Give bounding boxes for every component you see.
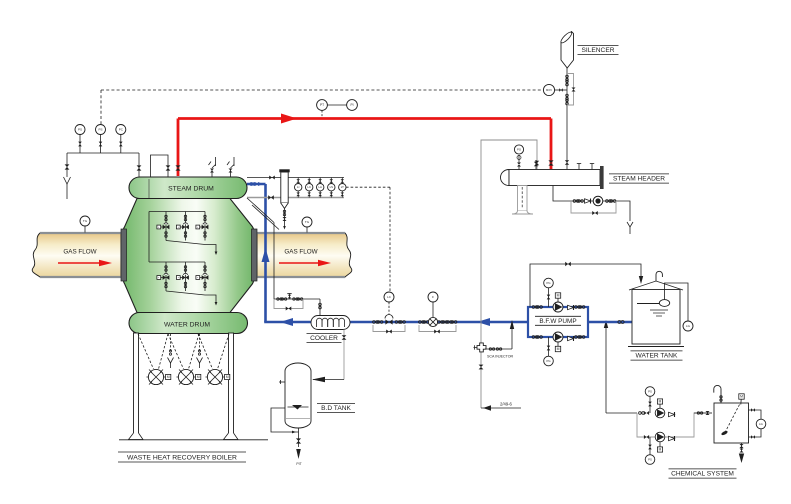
vent drop with valve and vent	[64, 153, 71, 199]
boiler internal blowdown row 2	[149, 262, 217, 306]
svg-text:COOLER: COOLER	[310, 335, 338, 342]
svg-text:PS: PS	[78, 128, 82, 132]
svg-text:M: M	[659, 400, 662, 404]
level gauge top line	[247, 176, 344, 180]
dosing pump B	[644, 432, 675, 452]
rotary valve RV3	[206, 369, 230, 384]
instrument PG pump B	[544, 337, 554, 366]
instrument MOV	[543, 84, 567, 95]
svg-text:M: M	[740, 395, 743, 399]
svg-text:LG: LG	[759, 422, 763, 426]
header nozzle valve	[534, 160, 538, 170]
silencer	[560, 31, 574, 68]
level instrument LC	[306, 178, 313, 198]
feedwater arrow at cooler	[280, 318, 293, 326]
feedwater riser arrow	[262, 248, 270, 262]
svg-text:WATER DRUM: WATER DRUM	[164, 321, 210, 328]
drum top root valve	[137, 165, 142, 170]
feedwater suction from tank (blue)	[588, 321, 632, 324]
steam flow arrow	[281, 114, 297, 124]
safety valve 2	[227, 157, 234, 177]
dosing pump A	[644, 399, 675, 418]
boiler internal blowdown row 1	[149, 212, 217, 263]
svg-text:PG: PG	[546, 281, 550, 285]
chemical tank drain	[739, 443, 744, 463]
label B.F.W PUMP	[535, 316, 581, 325]
rotary valve RV1	[147, 369, 171, 384]
pump A train	[532, 302, 585, 312]
water drum	[129, 313, 248, 334]
label STEAM HEADER	[609, 174, 669, 183]
feedwater main line (blue)	[264, 321, 528, 324]
feedwater arrow at pump discharge	[477, 318, 490, 326]
tank vent hook	[656, 271, 662, 281]
svg-text:▪: ▪	[178, 276, 179, 279]
steam drum	[129, 177, 247, 199]
sample cooler	[311, 316, 350, 330]
svg-text:2/49-6: 2/49-6	[500, 402, 513, 407]
svg-text:TG: TG	[83, 219, 88, 223]
svg-text:M: M	[557, 294, 560, 298]
right duct flange	[252, 229, 258, 281]
svg-text:▪: ▪	[197, 276, 198, 279]
label CHEMICAL SYSTEM	[669, 469, 737, 478]
svg-text:▪: ▪	[197, 226, 198, 229]
level instrument LI	[295, 178, 302, 198]
hopper drain vent	[168, 334, 174, 368]
drum vent U-loop	[151, 155, 171, 177]
left duct gas arrow	[58, 260, 112, 266]
injector feed line	[485, 320, 514, 350]
svg-text:▪: ▪	[158, 276, 159, 279]
svg-text:LT: LT	[341, 185, 344, 189]
header support	[512, 186, 533, 215]
right duct gas arrow	[279, 260, 331, 266]
tank side loop	[271, 408, 299, 433]
svg-text:LS: LS	[330, 185, 334, 189]
chemical dosing loop	[606, 411, 712, 437]
drum weld line	[148, 179, 150, 212]
level instrument LA	[317, 178, 324, 198]
trap bypass	[571, 201, 616, 215]
level instrument LS	[328, 178, 335, 198]
steam drum outlet valve	[175, 165, 180, 170]
svg-text:LG: LG	[686, 324, 691, 328]
trap line	[553, 186, 630, 222]
svg-text:▪: ▪	[158, 226, 159, 229]
tank level gauge LG	[665, 283, 694, 331]
svg-text:M: M	[197, 375, 200, 379]
svg-text:M: M	[659, 448, 662, 452]
svg-text:CHEMICAL SYSTEM: CHEMICAL SYSTEM	[671, 471, 734, 478]
hopper drain vent	[197, 334, 203, 368]
svg-text:B.D TANK: B.D TANK	[321, 405, 351, 412]
sample station bypass	[274, 299, 303, 311]
level gauge column	[279, 169, 289, 208]
rotary valve RV2	[177, 369, 201, 384]
flow station bypass	[419, 325, 456, 334]
chemical tank	[714, 403, 749, 443]
left duct instrument TG	[80, 216, 90, 233]
silencer line	[565, 68, 569, 170]
svg-text:PS: PS	[648, 458, 652, 462]
svg-text:LI: LI	[297, 185, 300, 189]
level gauge bottom line	[247, 195, 344, 199]
pump B train	[532, 332, 585, 342]
pump B motor	[555, 342, 560, 352]
instrument PS	[75, 125, 85, 154]
svg-text:▪: ▪	[178, 226, 179, 229]
ash hopper 3 (dashed cone)	[198, 334, 229, 369]
label B.D TANK	[317, 404, 355, 413]
level signal to LC valve (dashed)	[346, 187, 390, 292]
chemical dosing riser	[604, 320, 608, 413]
tank vent stub	[279, 380, 285, 384]
pump A motor	[555, 293, 560, 302]
instrument PT	[317, 100, 328, 117]
left gas duct	[32, 233, 121, 277]
svg-text:STEAM HEADER: STEAM HEADER	[613, 176, 665, 183]
svg-text:LA: LA	[318, 185, 322, 189]
svg-text:PT: PT	[320, 103, 324, 107]
flow indicator F	[419, 292, 457, 327]
right duct label GAS FLOW	[284, 249, 317, 256]
svg-text:GAS FLOW: GAS FLOW	[284, 249, 317, 256]
svg-text:PS: PS	[98, 128, 102, 132]
chemical tank vent hook	[714, 385, 722, 403]
label COOLER	[307, 334, 342, 343]
steam header vessel	[501, 166, 604, 189]
instrument signal dashed line (drum pressure to MOV)	[101, 90, 543, 124]
steam header drain line (gray)	[481, 140, 539, 408]
svg-text:PI: PI	[350, 103, 353, 107]
label WASTE HEAT RECOVERY BOILER	[118, 452, 246, 462]
level instrument LT	[339, 178, 346, 198]
drum inlet valves	[250, 182, 263, 186]
svg-text:TG: TG	[305, 220, 310, 224]
svg-text:WASTE HEAT RECOVERY BOILER: WASTE HEAT RECOVERY BOILER	[127, 454, 237, 461]
svg-text:SCA INJECTOR: SCA INJECTOR	[487, 355, 513, 359]
chemical tank level gauge	[749, 408, 766, 439]
gauge column drain	[283, 209, 287, 230]
feedwater line into drum (blue)	[247, 184, 266, 322]
drum blowdown diagonals	[247, 198, 279, 230]
svg-text:STEAM DRUM: STEAM DRUM	[168, 185, 214, 192]
water tank	[628, 281, 684, 347]
boiler left leg	[129, 333, 144, 440]
svg-text:LC: LC	[307, 185, 311, 189]
minimum flow recirc line	[530, 262, 643, 307]
instrument PS dosing B	[645, 437, 655, 464]
sample line down	[273, 223, 275, 300]
silencer bypass	[567, 74, 576, 106]
left duct flange	[121, 229, 127, 281]
steam header inlet valve	[548, 160, 553, 165]
svg-text:F: F	[432, 295, 434, 299]
pump suction/discharge loop (blue)	[528, 307, 588, 337]
instrument PS	[96, 125, 106, 154]
safety valve 1	[209, 157, 216, 177]
svg-text:M: M	[226, 375, 229, 379]
trap drain funnel	[627, 222, 633, 234]
boiler right leg	[224, 333, 239, 440]
label WATER TANK	[631, 351, 683, 360]
ash hopper 2 (dashed cone)	[168, 334, 199, 369]
label SCA INJECTOR	[487, 355, 513, 359]
chemical injector	[474, 343, 487, 352]
level control valve LC	[373, 292, 406, 325]
header nozzles	[577, 164, 594, 170]
svg-text:PS: PS	[648, 390, 652, 394]
svg-text:MOV: MOV	[546, 88, 552, 92]
agitator	[721, 394, 744, 436]
svg-text:B.F.W PUMP: B.F.W PUMP	[539, 318, 576, 325]
blowdown valve	[479, 365, 484, 370]
svg-text:WATER TANK: WATER TANK	[636, 353, 678, 360]
trap station	[573, 196, 616, 206]
instrument PS dosing A	[645, 387, 655, 413]
ground line	[119, 439, 268, 441]
instrument PG pump A	[544, 278, 554, 307]
right gas duct	[257, 233, 352, 277]
tank level float	[637, 300, 670, 316]
svg-text:PIT: PIT	[296, 462, 301, 466]
sample cooler inlet station	[274, 294, 321, 316]
svg-text:GAS FLOW: GAS FLOW	[63, 249, 96, 256]
svg-text:M: M	[167, 375, 170, 379]
instrument PC	[116, 125, 126, 154]
pressure gauge PG on header	[514, 145, 523, 170]
silencer vent valves	[566, 75, 569, 105]
left duct label GAS FLOW	[63, 249, 96, 256]
svg-text:M: M	[557, 347, 560, 351]
line to 2/49-6	[481, 402, 521, 411]
tank drain	[296, 428, 302, 466]
label SILENCER	[578, 45, 619, 54]
blowdown tank	[285, 363, 311, 428]
svg-text:SILENCER: SILENCER	[582, 47, 615, 54]
right duct instrument TG	[302, 217, 312, 233]
svg-text:PG: PG	[517, 148, 521, 152]
svg-text:PG: PG	[546, 359, 550, 363]
LC station bypass	[373, 325, 405, 334]
main steam line (red)	[178, 119, 551, 177]
instrument PI	[328, 100, 358, 111]
boiler body	[124, 199, 254, 313]
pressure instrument header	[67, 153, 139, 177]
ash hopper 1 (dashed cone)	[138, 334, 168, 369]
cooler drain line	[312, 330, 346, 383]
